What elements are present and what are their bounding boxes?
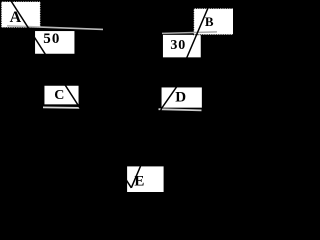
parallel line H4 (gray line under D box) xyxy=(159,109,202,110)
label box 50 (white fill, solid border, thicker bottom) xyxy=(35,31,76,56)
svg-text:E: E xyxy=(134,174,144,190)
label box A (white fill, dotted border) xyxy=(1,2,40,28)
label box 30 (white fill, solid border) xyxy=(162,34,201,58)
svg-text:50: 50 xyxy=(43,31,60,47)
transversal L1 (left line through A, 50, C down to vertex E) xyxy=(10,0,131,188)
label box B (white fill, dotted border) xyxy=(194,8,235,34)
parallel line H1 (top-left gray line under A box) xyxy=(7,26,103,30)
parallel line H2 (top-right gray line above 30 box) xyxy=(162,32,217,34)
svg-text:B: B xyxy=(205,14,214,29)
svg-text:30: 30 xyxy=(170,38,186,53)
svg-text:C: C xyxy=(54,88,64,103)
label box C (white fill, solid border) xyxy=(44,85,79,105)
transversal L2 (right line through B, 30, D down to vertex E) xyxy=(131,0,211,188)
parallel line H3 (gray line under C box) xyxy=(43,106,80,109)
label box D (white fill, solid border) xyxy=(161,87,202,108)
label box E (white fill, solid border) xyxy=(127,166,165,193)
svg-text:D: D xyxy=(175,89,186,105)
svg-text:A: A xyxy=(10,9,22,26)
